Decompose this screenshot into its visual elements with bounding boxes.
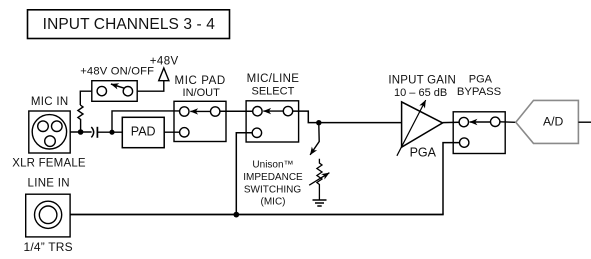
svg-text:IMPEDANCE: IMPEDANCE: [243, 172, 303, 183]
svg-text:+48V ON/OFF: +48V ON/OFF: [80, 66, 154, 78]
svg-text:+48V: +48V: [150, 56, 179, 68]
svg-text:PGA: PGA: [410, 146, 437, 160]
svg-text:IN/OUT: IN/OUT: [183, 87, 221, 99]
svg-text:Unison™: Unison™: [252, 160, 293, 171]
svg-text:1/4” TRS: 1/4” TRS: [23, 240, 72, 254]
svg-text:BYPASS: BYPASS: [457, 86, 502, 98]
svg-text:LINE IN: LINE IN: [28, 178, 70, 190]
svg-text:PGA: PGA: [469, 74, 493, 86]
svg-text:MIC IN: MIC IN: [31, 96, 69, 108]
svg-text:SELECT: SELECT: [252, 86, 295, 98]
svg-text:XLR FEMALE: XLR FEMALE: [12, 157, 86, 169]
svg-text:PAD: PAD: [131, 124, 156, 138]
svg-text:A/D: A/D: [543, 115, 564, 129]
svg-text:10 – 65 dB: 10 – 65 dB: [394, 87, 447, 99]
svg-text:INPUT CHANNELS 3 - 4: INPUT CHANNELS 3 - 4: [43, 16, 216, 33]
svg-text:INPUT GAIN: INPUT GAIN: [388, 75, 456, 87]
svg-text:MIC PAD: MIC PAD: [175, 75, 226, 87]
svg-text:MIC/LINE: MIC/LINE: [247, 73, 300, 85]
svg-text:SWITCHING: SWITCHING: [244, 184, 301, 195]
svg-text:(MIC): (MIC): [261, 197, 286, 208]
